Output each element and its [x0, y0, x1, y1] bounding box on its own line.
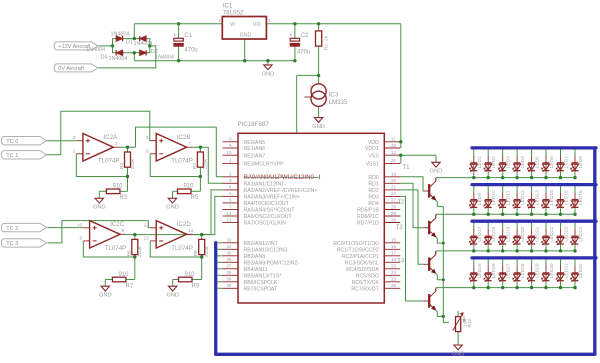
svg-text:910: 910 [119, 272, 130, 278]
svg-text:18: 18 [391, 257, 397, 262]
svg-text:R6: R6 [126, 250, 132, 256]
svg-text:LED18: LED18 [491, 226, 497, 241]
svg-text:29: 29 [391, 211, 397, 216]
svg-text:RB1/AN10/C12IN3-: RB1/AN10/C12IN3- [244, 247, 290, 253]
svg-text:6: 6 [146, 148, 149, 153]
svg-text:RC3/SCK/SCL: RC3/SCK/SCL [345, 260, 379, 266]
svg-text:R8: R8 [193, 250, 199, 256]
svg-text:470u: 470u [184, 48, 197, 54]
svg-text:RC4/SDI/SDA: RC4/SDI/SDA [346, 267, 379, 273]
svg-text:TC 3: TC 3 [6, 241, 18, 247]
svg-text:39: 39 [226, 277, 232, 282]
svg-text:38: 38 [226, 270, 232, 275]
svg-text:LED17: LED17 [477, 226, 483, 241]
svg-text:2: 2 [218, 18, 221, 23]
svg-text:LED15: LED15 [564, 190, 570, 205]
svg-text:+: + [173, 34, 176, 39]
svg-text:R5: R5 [191, 195, 199, 201]
svg-text:30: 30 [391, 217, 397, 222]
svg-text:GND: GND [99, 293, 112, 299]
svg-text:8: 8 [229, 137, 232, 142]
svg-text:LED30: LED30 [549, 263, 555, 278]
svg-text:16: 16 [391, 244, 397, 249]
svg-text:C1: C1 [184, 33, 192, 39]
svg-text:R1: R1 [324, 44, 330, 50]
svg-text:21: 21 [391, 185, 397, 190]
svg-text:T1: T1 [403, 165, 411, 171]
svg-text:LED2: LED2 [491, 156, 497, 169]
svg-text:910: 910 [184, 184, 195, 190]
svg-text:+: + [309, 84, 312, 89]
svg-text:IC2B: IC2B [177, 134, 191, 141]
svg-text:GND: GND [93, 205, 106, 211]
svg-text:RC6/TX/CK: RC6/TX/CK [352, 280, 380, 286]
svg-text:LED20: LED20 [520, 226, 526, 241]
svg-text:22: 22 [391, 191, 397, 196]
svg-text:5: 5 [229, 191, 232, 196]
svg-text:RB4/AN11: RB4/AN11 [244, 267, 268, 273]
svg-text:R2: R2 [119, 163, 125, 169]
svg-text:23: 23 [391, 264, 397, 269]
svg-text:VO: VO [253, 22, 261, 28]
svg-text:2: 2 [229, 172, 232, 177]
svg-text:RC5/SDO: RC5/SDO [356, 273, 379, 279]
svg-text:D1: D1 [126, 40, 133, 46]
svg-text:GND: GND [166, 205, 179, 211]
svg-text:25: 25 [391, 277, 397, 282]
svg-text:40: 40 [226, 283, 232, 288]
svg-text:R3: R3 [120, 195, 128, 201]
svg-text:33: 33 [226, 238, 232, 243]
svg-text:36: 36 [226, 257, 232, 262]
svg-text:LED27: LED27 [506, 263, 512, 278]
svg-text:RE2/AN7: RE2/AN7 [244, 153, 266, 159]
svg-text:31: 31 [391, 158, 397, 163]
svg-text:R7: R7 [126, 283, 134, 289]
svg-text:78L05Z: 78L05Z [223, 10, 244, 17]
svg-text:LED28: LED28 [520, 263, 526, 278]
svg-text:GND: GND [262, 71, 275, 77]
svg-text:T2: T2 [398, 200, 406, 206]
svg-text:2: 2 [73, 148, 76, 153]
svg-text:1N4004: 1N4004 [111, 31, 130, 37]
svg-text:TC 0: TC 0 [6, 139, 18, 145]
svg-text:IC2D: IC2D [177, 221, 192, 228]
svg-text:LED9: LED9 [477, 193, 483, 206]
svg-text:GND: GND [452, 351, 465, 357]
svg-text:RD7/P1D: RD7/P1D [357, 221, 379, 227]
svg-text:+: + [290, 34, 293, 39]
svg-text:14: 14 [226, 211, 232, 216]
svg-text:5: 5 [146, 135, 149, 140]
svg-text:6: 6 [229, 198, 232, 203]
svg-text:LED32: LED32 [578, 263, 584, 278]
svg-text:TL074P: TL074P [171, 245, 193, 252]
svg-text:RD1: RD1 [368, 181, 378, 187]
svg-text:RC1/T1OSI/CCP2: RC1/T1OSI/CCP2 [337, 247, 379, 253]
svg-text:32: 32 [391, 143, 397, 148]
svg-text:910: 910 [185, 272, 196, 278]
svg-text:LM335: LM335 [329, 99, 348, 106]
svg-text:LED23: LED23 [564, 226, 570, 241]
svg-text:GND: GND [312, 124, 325, 130]
svg-text:20: 20 [391, 178, 397, 183]
svg-text:LED3: LED3 [506, 156, 512, 169]
svg-text:17: 17 [391, 251, 397, 256]
svg-text:LED7: LED7 [564, 156, 570, 169]
svg-text:220k: 220k [137, 246, 143, 257]
svg-text:IC2C: IC2C [110, 221, 125, 228]
svg-text:14: 14 [188, 228, 194, 233]
svg-text:13: 13 [226, 217, 232, 222]
svg-text:LED22: LED22 [549, 226, 555, 241]
svg-text:LED4: LED4 [520, 156, 526, 169]
svg-text:IC2A: IC2A [103, 134, 118, 141]
svg-text:4: 4 [229, 185, 232, 190]
svg-text:15: 15 [391, 238, 397, 243]
svg-text:RE1/AN6: RE1/AN6 [244, 146, 266, 152]
svg-text:VDD1: VDD1 [365, 146, 379, 152]
svg-text:10: 10 [226, 150, 232, 155]
svg-text:10: 10 [77, 222, 83, 227]
svg-text:D4: D4 [101, 55, 108, 61]
svg-text:TL074P: TL074P [98, 158, 120, 165]
svg-text:LED16: LED16 [578, 190, 584, 205]
svg-text:0V Aircraft: 0V Aircraft [58, 66, 84, 72]
svg-text:7: 7 [229, 204, 232, 209]
svg-text:19: 19 [391, 172, 397, 177]
svg-text:RD0: RD0 [368, 175, 378, 181]
svg-text:GND: GND [166, 293, 179, 299]
svg-text:GND: GND [240, 32, 252, 38]
svg-text:R4: R4 [192, 163, 198, 169]
svg-text:RB7/ICSPDAT: RB7/ICSPDAT [244, 286, 278, 292]
svg-text:RA2/AN2/VREF-/CVREF/C2IN+: RA2/AN2/VREF-/CVREF/C2IN+ [244, 188, 318, 194]
svg-text:RA4/T0CKI/C1OUT: RA4/T0CKI/C1OUT [244, 201, 290, 207]
svg-text:LED1: LED1 [477, 156, 483, 169]
svg-text:LED14: LED14 [549, 190, 555, 205]
svg-text:220k: 220k [130, 158, 136, 169]
svg-text:9: 9 [229, 143, 232, 148]
svg-text:37: 37 [226, 264, 232, 269]
svg-text:28: 28 [391, 204, 397, 209]
svg-text:3: 3 [73, 135, 76, 140]
svg-text:VSS: VSS [368, 153, 379, 159]
svg-text:220k: 220k [204, 246, 210, 257]
svg-text:LED11: LED11 [506, 190, 512, 205]
svg-text:RB5/AN13/T1G*: RB5/AN13/T1G* [244, 273, 282, 279]
svg-text:T3: T3 [396, 225, 404, 231]
svg-text:9: 9 [80, 235, 83, 240]
svg-text:27: 27 [391, 198, 397, 203]
svg-text:LED10: LED10 [491, 190, 497, 205]
svg-text:PIC16F887: PIC16F887 [238, 121, 270, 128]
svg-text:R10: R10 [467, 318, 473, 327]
svg-text:RB2/AN8: RB2/AN8 [244, 254, 266, 260]
svg-text:TL074P: TL074P [171, 158, 193, 165]
svg-text:1N4004: 1N4004 [86, 47, 105, 53]
svg-text:RE0/AN5: RE0/AN5 [244, 140, 266, 146]
svg-text:T4: T4 [397, 259, 405, 265]
svg-text:LED26: LED26 [491, 263, 497, 278]
svg-text:IC3: IC3 [329, 92, 339, 99]
svg-text:LED13: LED13 [535, 190, 541, 205]
svg-text:1N4004: 1N4004 [134, 41, 153, 47]
svg-text:LED24: LED24 [578, 226, 584, 241]
svg-text:IC1: IC1 [223, 3, 233, 10]
svg-text:TC 1: TC 1 [6, 153, 18, 159]
svg-text:34: 34 [226, 244, 232, 249]
svg-text:RA5/AN4/SS*/C2OUT: RA5/AN4/SS*/C2OUT [244, 208, 296, 214]
svg-text:26: 26 [391, 283, 397, 288]
svg-text:LED29: LED29 [535, 263, 541, 278]
svg-text:RA7/OSC1/CLKIN: RA7/OSC1/CLKIN [244, 221, 287, 227]
svg-text:3: 3 [229, 178, 232, 183]
svg-text:RB6/ICSPCLK: RB6/ICSPCLK [244, 280, 278, 286]
svg-text:12: 12 [391, 150, 397, 155]
svg-text:1N4004: 1N4004 [109, 56, 128, 62]
svg-text:LED25: LED25 [477, 263, 483, 278]
svg-text:RC0/T1OSO/T1CKI: RC0/T1OSO/T1CKI [333, 241, 379, 247]
svg-text:470u: 470u [297, 50, 310, 56]
svg-text:C2: C2 [301, 33, 309, 39]
svg-text:RA0/AN0/ULPWU/C12IN0-: RA0/AN0/ULPWU/C12IN0- [244, 175, 316, 181]
svg-text:2k: 2k [324, 35, 330, 41]
svg-text:RD5/P1B: RD5/P1B [357, 208, 379, 214]
svg-text:7: 7 [188, 141, 191, 146]
svg-text:RA1/AN1/C12IN1-: RA1/AN1/C12IN1- [244, 181, 287, 187]
svg-text:GND: GND [430, 169, 443, 175]
svg-text:RD6/P1C: RD6/P1C [357, 214, 379, 220]
svg-text:RE3/MCLR*/VPP: RE3/MCLR*/VPP [244, 162, 285, 168]
svg-text:35: 35 [226, 251, 232, 256]
svg-text:1: 1 [268, 18, 271, 23]
svg-text:VSS1: VSS1 [366, 162, 379, 168]
svg-text:LED12: LED12 [520, 190, 526, 205]
svg-text:8: 8 [122, 228, 125, 233]
svg-text:11: 11 [391, 137, 396, 142]
svg-text:RC2/P1A/CCP1: RC2/P1A/CCP1 [342, 254, 379, 260]
svg-text:VI: VI [230, 22, 235, 28]
svg-text:LED6: LED6 [549, 156, 555, 169]
svg-text:1: 1 [229, 158, 232, 163]
svg-text:TL074P: TL074P [105, 245, 127, 252]
svg-text:RB0/AN12/INT: RB0/AN12/INT [244, 241, 279, 247]
svg-text:RA3/AN3/VREF+/C1IN+: RA3/AN3/VREF+/C1IN+ [244, 195, 300, 201]
svg-text:RC7/RX/DT: RC7/RX/DT [351, 286, 379, 292]
svg-text:VDD: VDD [368, 140, 379, 146]
svg-text:24: 24 [391, 270, 397, 275]
svg-text:LED5: LED5 [535, 156, 541, 169]
svg-text:RD2: RD2 [368, 188, 378, 194]
svg-text:R9: R9 [192, 283, 200, 289]
svg-text:RD4: RD4 [368, 201, 378, 207]
svg-text:12: 12 [144, 222, 150, 227]
svg-text:LED8: LED8 [578, 156, 584, 169]
svg-text:13: 13 [144, 235, 150, 240]
svg-text:220k: 220k [203, 158, 209, 169]
svg-text:RB3/AN9/PGM/C12IN2-: RB3/AN9/PGM/C12IN2- [244, 260, 300, 266]
svg-text:LED21: LED21 [535, 226, 541, 241]
svg-text:RD3: RD3 [368, 195, 378, 201]
svg-text:TC 2: TC 2 [6, 226, 18, 232]
svg-text:910: 910 [113, 184, 124, 190]
svg-text:1N4004: 1N4004 [155, 54, 174, 60]
svg-text:1: 1 [115, 141, 118, 146]
svg-text:LED19: LED19 [506, 226, 512, 241]
svg-text:LED31: LED31 [564, 263, 570, 278]
svg-text:RA6/OSC2/CLKOUT: RA6/OSC2/CLKOUT [244, 214, 293, 220]
